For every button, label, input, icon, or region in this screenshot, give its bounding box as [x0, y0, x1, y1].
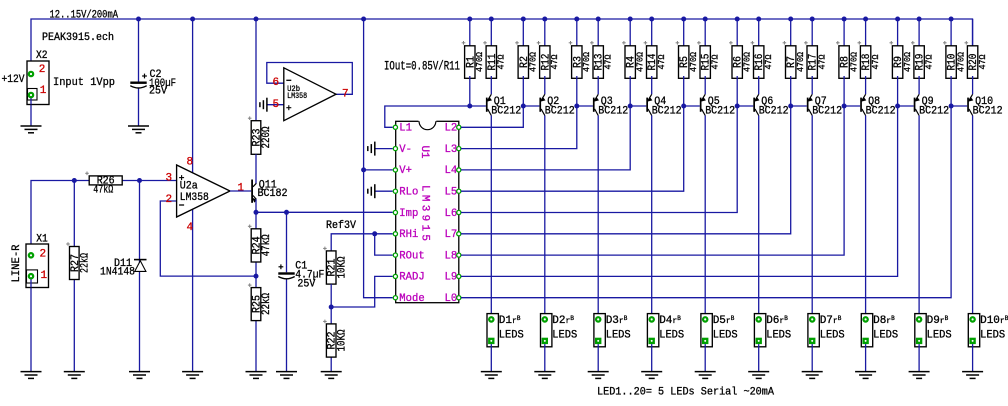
ground R27: [64, 371, 85, 373]
svg-text:D2rB: D2rB: [552, 315, 574, 327]
wire Q10 collector to LED D10r: [972, 116, 974, 320]
svg-text:1: 1: [237, 183, 244, 195]
LED module D7r: [808, 314, 819, 347]
svg-text:LEDS: LEDS: [606, 330, 631, 342]
svg-text:BC212: BC212: [652, 105, 682, 117]
ground D7r: [802, 371, 823, 373]
svg-text:IOut=0.85V/R11: IOut=0.85V/R11: [384, 59, 460, 73]
node base Q9: [895, 104, 900, 109]
wire rail to R16: [758, 19, 760, 48]
svg-text:L2: L2: [445, 123, 458, 135]
LED module D6r: [754, 314, 765, 347]
resistor R6 470: [732, 46, 742, 79]
wire U2b pin5 to ground: [267, 104, 284, 106]
svg-text:BC212: BC212: [545, 105, 575, 117]
svg-text:D7rB: D7rB: [820, 315, 842, 327]
resistor R26: [89, 176, 122, 185]
resistor R23: [251, 121, 261, 155]
wire Ref3V to RHi: [331, 234, 393, 251]
wire rail to C2: [138, 19, 140, 82]
wire rail to R4: [629, 19, 631, 48]
svg-text:ROut: ROut: [399, 250, 424, 262]
ground D5r: [695, 371, 716, 373]
wire rail to R11: [490, 19, 492, 48]
svg-text:47Ω: 47Ω: [763, 54, 774, 69]
wire U2a output to Q11 base: [230, 190, 251, 192]
svg-text:LEDS: LEDS: [820, 330, 845, 342]
wire D4r to ground: [651, 344, 653, 372]
node base Q8: [842, 104, 847, 109]
wire +12V top rail: [31, 19, 973, 74]
resistor R16 47: [754, 46, 764, 79]
resistor R21: [326, 251, 336, 284]
svg-text:47Ω: 47Ω: [710, 54, 721, 69]
svg-text:BC212: BC212: [919, 105, 949, 117]
wire rail to R18: [865, 19, 867, 48]
svg-text:470Ω: 470Ω: [528, 52, 539, 72]
LED module D10r: [968, 314, 979, 347]
wire rail to R9: [897, 19, 899, 48]
svg-text:U2a: U2a: [180, 180, 198, 192]
svg-text:V-: V-: [399, 144, 412, 156]
svg-text:47Ω: 47Ω: [549, 54, 560, 69]
svg-text:L7: L7: [445, 229, 458, 241]
resistor R17 47: [807, 46, 817, 79]
ground U2a pin4: [182, 371, 203, 373]
node input row junction R27: [72, 178, 77, 183]
node base Q1: [467, 104, 472, 109]
node base Q5: [681, 104, 686, 109]
svg-text:LEDS: LEDS: [980, 330, 1005, 342]
ground X1: [21, 371, 42, 373]
node RHi ROut tie: [372, 231, 377, 236]
wire R1 to base node: [469, 76, 471, 106]
wire Imp row to C1: [286, 212, 288, 272]
svg-text:LEDS: LEDS: [659, 330, 684, 342]
svg-text:Imp: Imp: [399, 208, 418, 220]
wire rail to R2: [522, 19, 524, 48]
svg-text:D3rB: D3rB: [606, 315, 628, 327]
svg-text:47Ω: 47Ω: [870, 54, 881, 69]
wire RHi to ROut tie: [375, 234, 393, 255]
svg-text:LM358: LM358: [180, 192, 209, 204]
svg-text:PEAK3915.ech: PEAK3915.ech: [42, 32, 114, 44]
wire R23 to Q11 collector: [255, 154, 257, 183]
wire L3 to Q3 base: [461, 106, 577, 149]
resistor R5 470: [679, 46, 689, 79]
svg-text:47Ω: 47Ω: [603, 54, 614, 69]
svg-text:BC212: BC212: [598, 105, 628, 117]
svg-text:LEDS: LEDS: [766, 330, 791, 342]
transistor Q1 BC212: [470, 105, 486, 107]
svg-text:3: 3: [166, 173, 173, 185]
svg-text:7: 7: [342, 88, 349, 100]
wire rail to R15: [704, 19, 706, 48]
wire U2a pin4 to ground: [192, 209, 194, 371]
wire X1 to R26 to U2a+: [31, 181, 177, 256]
svg-text:L1: L1: [399, 123, 412, 135]
transistor Q9 BC212: [898, 105, 914, 107]
wire R13 to emitter: [597, 76, 599, 94]
svg-text:BC212: BC212: [759, 105, 789, 117]
LED module D2r: [541, 314, 552, 347]
wire D11 branch to ground: [139, 181, 141, 372]
wire rail to V+: [363, 19, 365, 170]
svg-text:+12V: +12V: [2, 74, 25, 86]
svg-text:470Ω: 470Ω: [581, 52, 592, 72]
svg-text:10KΩ: 10KΩ: [336, 329, 348, 351]
svg-text:BC212: BC212: [866, 105, 896, 117]
wire L1 to channel 1 base row: [385, 106, 470, 127]
svg-text:LEDS: LEDS: [873, 330, 898, 342]
svg-text:47Ω: 47Ω: [977, 54, 988, 69]
svg-text:X1: X1: [36, 234, 48, 246]
wire U2a pin2 feedback: [160, 201, 256, 276]
node input row junction D11: [137, 178, 142, 183]
connector X2: [27, 61, 49, 105]
wire R5 to base node: [683, 76, 685, 106]
svg-text:470Ω: 470Ω: [955, 52, 966, 72]
diode D11 1N4148: [134, 259, 147, 261]
node V+ junction: [361, 167, 366, 172]
wire rail to R14: [651, 19, 653, 48]
wire X1 pin1 to ground: [30, 276, 32, 371]
wire rail to R10: [950, 19, 952, 48]
svg-text:10KΩ: 10KΩ: [336, 256, 348, 278]
ground D3r: [588, 371, 609, 373]
LED module D1r: [487, 314, 498, 347]
wire rail to R8: [843, 19, 845, 48]
ground V- (rotated): [374, 142, 376, 156]
svg-text:Mode: Mode: [399, 293, 424, 305]
ground D2r: [534, 371, 555, 373]
svg-text:LED1..20= 5 LEDs Serial ~20mA: LED1..20= 5 LEDs Serial ~20mA: [597, 387, 774, 399]
resistor R14 47: [647, 46, 657, 79]
wire C2 to ground: [138, 89, 140, 127]
wire Q1 collector to LED D1r: [490, 116, 492, 320]
ground D8r: [855, 371, 876, 373]
svg-text:6: 6: [273, 77, 280, 89]
resistor R24: [255, 212, 257, 229]
svg-text:BC212: BC212: [973, 105, 1003, 117]
wire Q8 collector to LED D8r: [865, 116, 867, 320]
wire R27 branch to ground: [73, 181, 75, 372]
wire D6r to ground: [758, 344, 760, 372]
wire D3r to ground: [597, 344, 599, 372]
wire D10r to ground: [972, 344, 974, 372]
wire Q4 collector to LED D4r: [651, 116, 653, 320]
svg-text:220Ω: 220Ω: [261, 126, 273, 148]
wire L2 to Q2 base: [461, 106, 523, 127]
wire R11 to emitter: [490, 76, 492, 94]
resistor R7 470: [786, 46, 796, 79]
svg-text:470Ω: 470Ω: [902, 52, 913, 72]
wire R14 to emitter: [651, 76, 653, 94]
resistor R2 470: [518, 46, 528, 79]
wire R21 to R22: [330, 284, 332, 307]
transistor Q10 BC212: [951, 105, 967, 107]
svg-text:47Ω: 47Ω: [923, 54, 934, 69]
svg-text:1: 1: [40, 85, 47, 97]
transistor Q5 BC212: [684, 105, 700, 107]
transistor Q3 BC212: [577, 105, 593, 107]
ground C2: [128, 125, 149, 127]
resistor R8 470: [839, 46, 849, 79]
svg-text:2: 2: [39, 64, 46, 76]
resistor R27: [70, 247, 80, 280]
LED module D5r: [701, 314, 712, 347]
svg-text:RHi: RHi: [399, 229, 418, 241]
svg-text:L4: L4: [445, 165, 458, 177]
wire Mode to V+: [364, 170, 393, 298]
svg-text:470Ω: 470Ω: [795, 52, 806, 72]
wire L6 to Q6 base: [461, 106, 737, 213]
wire R19 to emitter: [918, 76, 920, 94]
svg-text:LEDS: LEDS: [927, 330, 952, 342]
resistor R18 47: [860, 46, 870, 79]
svg-text:470Ω: 470Ω: [742, 52, 753, 72]
svg-text:L8: L8: [445, 250, 458, 262]
node base Q7: [788, 104, 793, 109]
svg-text:47Ω: 47Ω: [496, 54, 507, 69]
svg-text:U1: U1: [418, 146, 430, 159]
wire Q3 collector to LED D3r: [597, 116, 599, 320]
svg-text:47Ω: 47Ω: [656, 54, 667, 69]
node +12V rail junctions: [136, 17, 141, 22]
svg-text:D5rB: D5rB: [713, 315, 735, 327]
wire R8 to base node: [843, 76, 845, 106]
svg-text:25V: 25V: [149, 86, 167, 98]
node base Q2: [521, 104, 526, 109]
wire U2a pin8 to rail: [192, 19, 194, 173]
wire L9 to Q9 base: [461, 106, 898, 276]
wire L5 to Q5 base: [461, 106, 684, 191]
svg-text:L3: L3: [445, 144, 458, 156]
ground D10r: [962, 371, 983, 373]
LED module D9r: [915, 314, 926, 347]
node base Q10: [949, 104, 954, 109]
transistor Q11 BC182: [251, 180, 253, 203]
svg-text:4: 4: [187, 222, 194, 234]
svg-text:RLo: RLo: [399, 187, 418, 199]
wire R4 to base node: [629, 76, 631, 106]
svg-text:47kΩ: 47kΩ: [261, 234, 273, 256]
wire rail to R5: [683, 19, 685, 48]
transistor Q8 BC212: [844, 105, 860, 107]
svg-text:Ref3V: Ref3V: [326, 220, 356, 232]
wire D9r to ground: [918, 344, 920, 372]
wire R10 to base node: [950, 76, 952, 106]
svg-text:1N4148: 1N4148: [100, 267, 135, 279]
wire rail to R19: [918, 19, 920, 48]
node RADJ divider junction: [329, 305, 334, 310]
wire Q6 collector to LED D6r: [758, 116, 760, 320]
svg-text:D9rB: D9rB: [927, 315, 949, 327]
svg-text:1: 1: [41, 270, 48, 282]
wire R6 to base node: [736, 76, 738, 106]
svg-text:BC212: BC212: [812, 105, 842, 117]
svg-text:2: 2: [40, 249, 47, 261]
resistor R1 470: [465, 46, 475, 79]
op-amp U1 LM3915 body: [396, 121, 459, 302]
resistor R110 47: [967, 46, 977, 79]
wire Q9 collector to LED D9r: [918, 116, 920, 320]
svg-text:BC182: BC182: [258, 188, 288, 200]
ground D11: [129, 371, 150, 373]
transistor Q4 BC212: [630, 105, 646, 107]
ground D4r: [641, 371, 662, 373]
svg-text:Input 1Vpp: Input 1Vpp: [53, 77, 115, 89]
svg-text:D8rB: D8rB: [873, 315, 895, 327]
wire Q11 emitter row to IC Imp: [256, 211, 393, 213]
svg-text:470Ω: 470Ω: [635, 52, 646, 72]
resistor R11 47: [486, 46, 496, 79]
ground D1r: [481, 371, 502, 373]
transistor Q6 BC212: [737, 105, 753, 107]
svg-text:RADJ: RADJ: [399, 272, 424, 284]
wire R2 to base node: [522, 76, 524, 106]
wire rail to R13: [597, 19, 599, 48]
wire RADJ to divider: [331, 276, 393, 307]
svg-text:LINE-R: LINE-R: [11, 244, 23, 282]
ground RLo (rotated): [374, 184, 376, 198]
resistor R10 470: [946, 46, 956, 79]
ground R22: [321, 371, 342, 373]
svg-text:22kΩ: 22kΩ: [261, 293, 273, 315]
wire R18 to emitter: [865, 76, 867, 94]
svg-text:LM358: LM358: [287, 91, 307, 101]
resistor R19 47: [914, 46, 924, 79]
wire rail to R1: [469, 19, 471, 48]
svg-text:470Ω: 470Ω: [688, 52, 699, 72]
op-amp U2b: [284, 68, 336, 121]
svg-text:D6rB: D6rB: [766, 315, 788, 327]
capacitor C2: [130, 82, 146, 84]
wire rail to R17: [811, 19, 813, 48]
wire V- to ground: [375, 148, 393, 150]
svg-text:D4rB: D4rB: [659, 315, 681, 327]
wire C1 to ground: [286, 280, 288, 372]
connector X1: [26, 244, 49, 288]
svg-text:LEDS: LEDS: [499, 330, 524, 342]
op-amp U2a: [177, 165, 230, 217]
ground D9r: [909, 371, 930, 373]
wire L4 to Q4 base: [461, 106, 630, 170]
svg-text:470Ω: 470Ω: [474, 52, 485, 72]
svg-text:LEDS: LEDS: [713, 330, 738, 342]
capacitor C1: [278, 272, 294, 274]
svg-text:47kΩ: 47kΩ: [93, 185, 113, 197]
resistor R15 47: [700, 46, 710, 79]
svg-text:BC212: BC212: [705, 105, 735, 117]
wire D5r to ground: [704, 344, 706, 372]
wire rail to R6: [736, 19, 738, 48]
node C1 junction: [284, 210, 289, 215]
resistor R25: [255, 276, 257, 288]
node base Q4: [628, 104, 633, 109]
svg-text:5: 5: [273, 99, 280, 111]
svg-text:L6: L6: [445, 208, 458, 220]
svg-text:L0: L0: [445, 293, 458, 305]
ground D6r: [748, 371, 769, 373]
wire Q5 collector to LED D5r: [704, 116, 706, 320]
wire V+ to IC: [364, 169, 393, 171]
svg-text:12..15V/200mA: 12..15V/200mA: [50, 10, 119, 22]
node Q11 emitter: [254, 210, 259, 215]
LED module D3r: [594, 314, 605, 347]
wire R9 to base node: [897, 76, 899, 106]
wire R17 to emitter: [811, 76, 813, 94]
wire R23 top to rail: [255, 19, 257, 121]
svg-text:22kΩ: 22kΩ: [80, 253, 92, 273]
wire X2 pin1 to ground: [30, 95, 32, 126]
wire L8 to Q8 base: [461, 106, 844, 255]
svg-text:2: 2: [166, 194, 173, 206]
ground R25: [246, 371, 267, 373]
node R24 R25 junction: [254, 274, 259, 279]
transistor Q7 BC212: [791, 105, 807, 107]
wire rail to R12: [544, 19, 546, 48]
wire R3 to base node: [576, 76, 578, 106]
resistor R22: [330, 307, 332, 324]
wire R15 to emitter: [704, 76, 706, 94]
resistor R12 47: [540, 46, 550, 79]
ground X2: [21, 125, 42, 127]
wire rail to R7: [790, 19, 792, 48]
resistor R13 47: [593, 46, 603, 79]
svg-text:47Ω: 47Ω: [817, 54, 828, 69]
svg-text:D1rB: D1rB: [499, 315, 521, 327]
LED module D8r: [861, 314, 872, 347]
svg-text:LEDS: LEDS: [552, 330, 577, 342]
wire rail to R3: [576, 19, 578, 48]
wire R7 to base node: [790, 76, 792, 106]
wire R110 to emitter: [972, 76, 974, 94]
svg-text:X2: X2: [36, 50, 48, 62]
wire D8r to ground: [865, 344, 867, 372]
resistor R3 470: [572, 46, 582, 79]
wire Q2 collector to LED D2r: [544, 116, 546, 320]
svg-text:25V: 25V: [297, 279, 315, 291]
wire L7 to Q7 base: [461, 106, 791, 234]
LED module D4r: [647, 314, 658, 347]
svg-text:8: 8: [187, 157, 194, 169]
wire D7r to ground: [811, 344, 813, 372]
svg-text:L9: L9: [445, 272, 458, 284]
resistor R4 470: [625, 46, 635, 79]
svg-text:470Ω: 470Ω: [848, 52, 859, 72]
wire U2b feedback loop pin7 to pin6: [267, 63, 353, 95]
wire Q11 emitter to Imp row: [255, 199, 257, 212]
svg-text:V+: V+: [399, 165, 412, 177]
ground C1: [276, 371, 297, 373]
wire L0 to Q10 base: [461, 106, 951, 298]
transistor Q2 BC212: [523, 105, 539, 107]
wire rail to R110: [972, 19, 974, 48]
svg-text:D10rB: D10rB: [980, 315, 1008, 327]
wire Q7 collector to LED D7r: [811, 116, 813, 320]
wire R12 to emitter: [544, 76, 546, 94]
wire D1r to ground: [490, 344, 492, 372]
wire R16 to emitter: [758, 76, 760, 94]
svg-text:BC212: BC212: [491, 105, 521, 117]
wire D2r to ground: [544, 344, 546, 372]
resistor R9 470: [892, 46, 902, 79]
node base Q6: [735, 104, 740, 109]
svg-text:L5: L5: [445, 187, 458, 199]
node base Q3: [574, 104, 579, 109]
wire RLo to ground: [375, 190, 393, 192]
